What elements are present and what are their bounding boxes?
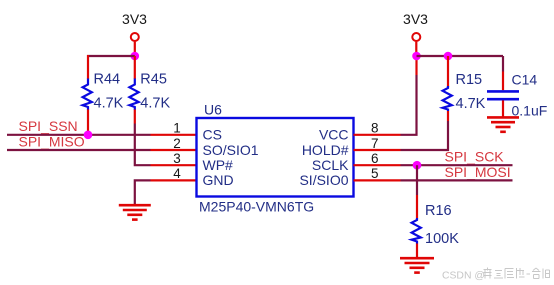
watermark CJK glyph 6 <box>543 269 550 279</box>
junction dot SCLK/R16 <box>413 161 422 170</box>
watermark CJK glyph 4 <box>517 268 525 279</box>
wire: red drop 3V3 to R45 top <box>134 56 136 79</box>
svg-text:7: 7 <box>371 136 379 151</box>
svg-text:R45: R45 <box>140 72 167 88</box>
svg-text:5: 5 <box>371 166 379 181</box>
wire: R45 bottom red segment <box>134 110 136 124</box>
wire: R16 bottom to ground <box>416 244 418 258</box>
capacitor C14 top plate <box>487 90 519 93</box>
pin 4 stub (GND) <box>151 179 197 181</box>
junction dot right rail at riser <box>412 52 421 61</box>
svg-text:4: 4 <box>173 166 181 181</box>
wire: GND pin4 to ground <box>135 180 151 205</box>
wire: left 3V3 rail horizontal to R44 <box>87 55 135 57</box>
wire: SPI_SCK net <box>401 164 513 166</box>
svg-text:HOLD#: HOLD# <box>302 142 349 158</box>
resistor R16 <box>412 218 421 244</box>
svg-text:U6: U6 <box>204 102 222 118</box>
wire: right 3V3 rail horizontal <box>417 55 504 57</box>
svg-text:4.7K: 4.7K <box>140 96 170 112</box>
wire: red drop 3V3 to R15 top <box>447 56 449 87</box>
wire: R44 bottom to SPI_SSN net <box>87 110 89 135</box>
svg-text:3: 3 <box>173 151 181 166</box>
wire: R45 down to WP# row <box>135 124 151 166</box>
svg-text:6: 6 <box>371 151 379 166</box>
watermark CJK glyph 2 <box>494 271 503 279</box>
svg-text:2: 2 <box>173 136 181 151</box>
svg-text:VCC: VCC <box>319 127 349 143</box>
svg-text:100K: 100K <box>425 231 459 247</box>
wire: red drop to R44 top <box>87 55 89 79</box>
ground symbol (R16) <box>400 258 434 272</box>
wire: R15 to HOLD# pin7 <box>401 121 449 150</box>
svg-text:4.7K: 4.7K <box>94 96 124 112</box>
wire: red lead to C14 top plate <box>502 72 504 91</box>
junction dot at 3V3 left rail <box>131 52 140 61</box>
svg-text:R44: R44 <box>94 72 121 88</box>
svg-text:SPI_MISO: SPI_MISO <box>19 134 85 150</box>
pin 7 stub (HOLD#) <box>354 149 401 151</box>
svg-text:GND: GND <box>203 172 234 188</box>
svg-text:1: 1 <box>173 121 181 136</box>
svg-text:SPI_SCK: SPI_SCK <box>445 149 505 165</box>
capacitor C14 bottom plate <box>487 98 519 101</box>
svg-text:SI/SIO0: SI/SIO0 <box>299 172 348 188</box>
watermark CJK glyph 5 <box>532 268 541 279</box>
wire: red top of VCC riser <box>415 56 417 75</box>
wire: SPI_MOSI net <box>401 179 513 181</box>
resistor R15 <box>443 86 452 111</box>
svg-text:SO/SIO1: SO/SIO1 <box>203 142 259 158</box>
pin 6 stub (SCLK) <box>354 164 401 166</box>
ground symbol (C14) <box>487 117 519 131</box>
watermark hyphen <box>527 273 531 275</box>
power 3V3 (right) circle symbol <box>412 33 420 41</box>
resistor R44 <box>83 79 92 111</box>
wire: R15 bottom red segment <box>447 111 449 121</box>
svg-text:SPI_SSN: SPI_SSN <box>19 118 78 134</box>
wire: 3V3 right circle lead <box>415 42 417 56</box>
junction dot right rail at R15 <box>444 52 453 61</box>
svg-text:CS: CS <box>203 127 222 143</box>
resistor R45 <box>129 79 138 111</box>
pin 5 stub (SI/SIO0) <box>354 179 401 181</box>
svg-text:8: 8 <box>371 121 379 136</box>
wire: VCC pin8 up to 3V3 rail <box>401 75 417 135</box>
op chip U6 body <box>197 118 354 197</box>
power 3V3 (left) circle symbol <box>131 33 139 41</box>
pin 8 stub (VCC) <box>354 134 401 136</box>
wire: SPI_SSN net <box>7 134 151 136</box>
svg-text:CSDN @: CSDN @ <box>442 271 485 282</box>
svg-text:SCLK: SCLK <box>312 157 349 173</box>
watermark CJK glyph 3 <box>505 269 514 279</box>
junction dot R44/SPI_SSN <box>84 131 93 140</box>
svg-text:4.7K: 4.7K <box>456 96 486 112</box>
svg-text:3V3: 3V3 <box>403 11 428 27</box>
svg-text:R15: R15 <box>456 72 483 88</box>
watermark CJK glyph 1 <box>484 268 492 279</box>
svg-text:R16: R16 <box>425 203 452 219</box>
svg-text:M25P40-VMN6TG: M25P40-VMN6TG <box>199 199 314 215</box>
pin 3 stub (WP#) <box>151 164 197 166</box>
pin 1 stub (CS) <box>151 134 197 136</box>
pin 2 stub (SO/SIO1) <box>151 149 197 151</box>
wire: red lead to R16 top <box>416 195 418 219</box>
svg-text:WP#: WP# <box>203 157 234 173</box>
svg-text:SPI_MOSI: SPI_MOSI <box>445 164 511 180</box>
svg-text:C14: C14 <box>512 72 538 88</box>
ground symbol (left, below pin 4) <box>119 205 151 219</box>
wire: rail corner down to C14 <box>502 56 504 72</box>
wire: SPI_MISO net <box>7 149 151 151</box>
wire: C14 bottom to ground <box>502 100 504 117</box>
svg-text:3V3: 3V3 <box>122 11 147 27</box>
wire: R16 riser from SCLK <box>416 165 418 195</box>
wire: 3V3 circle lead down <box>134 42 136 56</box>
